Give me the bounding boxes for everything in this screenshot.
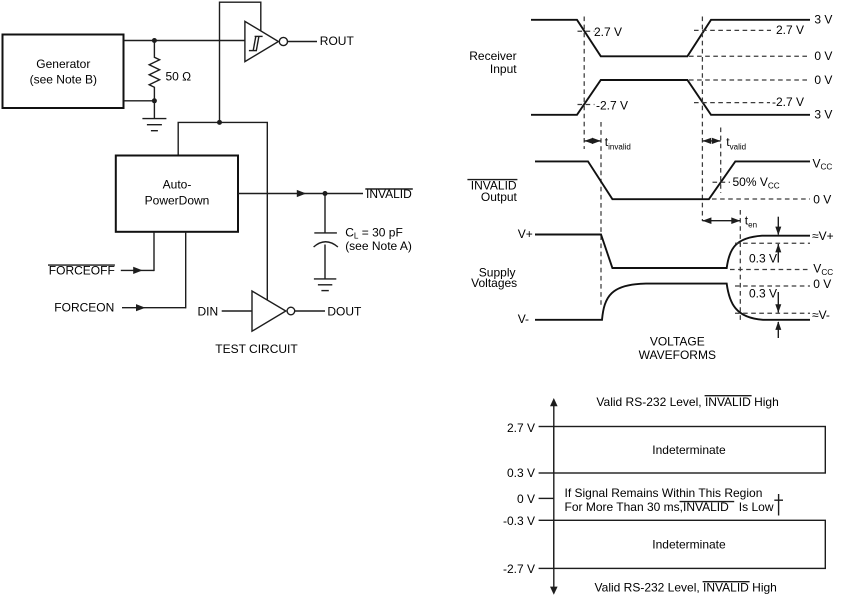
svg-text:tvalid: tvalid [726, 135, 746, 151]
wire generator top output to receiver input [124, 40, 245, 42]
wire auto-powerdown top to DOUT driver enable [178, 122, 267, 299]
svg-text:2.7 V: 2.7 V [594, 25, 622, 39]
dashed 0V level supply [735, 285, 810, 287]
svg-text:V-: V- [518, 312, 529, 326]
wire FORCEON input with arrowhead [122, 307, 186, 309]
svg-text:-2.7 V: -2.7 V [503, 562, 535, 576]
dashed V- plus 0.3V level [735, 312, 810, 314]
svg-text:≈V-: ≈V- [812, 308, 830, 322]
indeterminate region box top [554, 427, 826, 474]
dimension arrow t-invalid [584, 140, 601, 142]
0V dashed level first waveform [689, 55, 810, 57]
svg-text:0.3 V: 0.3 V [749, 287, 777, 301]
resistor 50 ohm [149, 41, 159, 101]
dimension arrow t-valid [702, 140, 720, 142]
50% VCC tick on rising edge [713, 181, 731, 183]
dimension arrows 0.3V lower [777, 292, 779, 313]
svg-text:Voltages: Voltages [471, 276, 517, 290]
wire capacitor to ground [324, 245, 326, 279]
hysteresis symbol inside receiver [249, 36, 263, 50]
svg-text:ROUT: ROUT [320, 34, 355, 48]
wire FORCEOFF input with arrowhead [121, 269, 154, 271]
svg-text:-0.3 V: -0.3 V [503, 514, 535, 528]
generator box [3, 35, 124, 109]
ground below capacitor [314, 278, 336, 280]
svg-text:WAVEFORMS: WAVEFORMS [639, 348, 716, 362]
svg-text:If Signal Remains Within This: If Signal Remains Within This Region [565, 486, 763, 500]
wire enable loop from auto-powerdown net up over receiver [220, 2, 261, 122]
svg-text:tinvalid: tinvalid [605, 135, 631, 151]
node junction enable loop to auto-powerdown [217, 120, 222, 125]
op-amp U1 receiver triangle [245, 21, 279, 61]
-2.7V threshold dashes right falling edge [694, 102, 770, 104]
0V dashed level second waveform [689, 79, 810, 81]
svg-text:0.3 V: 0.3 V [507, 466, 535, 480]
tick -0.3V [539, 519, 554, 521]
svg-text:0 V: 0 V [814, 73, 832, 87]
svg-text:-2.7 V: -2.7 V [772, 95, 804, 109]
svg-text:50 Ω: 50 Ω [166, 69, 192, 83]
dashed vertical t-en end [739, 210, 741, 322]
svg-text:≈V+: ≈V+ [812, 229, 834, 243]
arrowhead on INVALID wire [297, 190, 306, 197]
svg-text:For More Than 30 ms,INVALID: For More Than 30 ms,INVALID Is Low [565, 500, 774, 514]
BOTTOM RIGHT: valid level diagram [503, 395, 825, 595]
svg-text:FORCEON: FORCEON [54, 301, 114, 315]
svg-text:DIN: DIN [198, 305, 219, 319]
svg-text:Valid RS-232 Level, INVALID Hi: Valid RS-232 Level, INVALID High [596, 395, 778, 409]
wire V- supply waveform [535, 284, 810, 320]
driver output inversion bubble [287, 307, 295, 315]
auto-powerdown block U2 [116, 156, 238, 232]
svg-text:V+: V+ [518, 227, 533, 241]
node junction bottom of resistor [152, 98, 157, 103]
2.7V threshold tick left falling edge [578, 30, 595, 32]
dashed V+ minus 0.3V level [735, 242, 810, 244]
dashed 0V level invalid output [712, 198, 810, 200]
svg-text:2.7 V: 2.7 V [507, 421, 535, 435]
wire auto-powerdown output to INVALID node [238, 193, 363, 195]
svg-text:3 V: 3 V [814, 13, 832, 27]
ground below resistor [153, 101, 155, 119]
wire INVALID output waveform [535, 161, 810, 199]
wire generator bottom to resistor bottom [124, 100, 155, 102]
tick 0V [539, 497, 554, 499]
capacitor CL curved bottom plate [314, 242, 338, 247]
wire V+ supply waveform [535, 235, 810, 269]
svg-text:TEST CIRCUIT: TEST CIRCUIT [215, 342, 298, 356]
svg-text:-2.7 V: -2.7 V [596, 99, 628, 113]
receiver output inversion bubble [279, 37, 287, 45]
dimension arrow t-en [702, 220, 740, 222]
voltage axis with arrows [553, 403, 555, 589]
RIGHT: VOLTAGE WAVEFORMS [467, 13, 833, 363]
indeterminate region box bottom [554, 520, 826, 568]
capacitor CL top plate [314, 232, 337, 234]
svg-text:0 V: 0 V [813, 193, 831, 207]
-2.7V threshold tick left rising edge [578, 104, 595, 106]
svg-text:VOLTAGE: VOLTAGE [650, 334, 705, 348]
node junction INVALID [323, 191, 328, 196]
tick 2.7V [539, 426, 554, 428]
svg-text:ten: ten [745, 213, 757, 229]
svg-text:Output: Output [481, 190, 518, 204]
svg-text:VCC: VCC [813, 156, 833, 171]
dashed vertical t-invalid start [583, 17, 585, 150]
dimension arrows 0.3V upper [777, 217, 779, 235]
svg-text:0 V: 0 V [813, 277, 831, 291]
svg-text:Generator: Generator [36, 57, 90, 71]
node junction top of resistor [152, 38, 157, 43]
dagger footnote mark [778, 494, 780, 516]
tick 0.3V [539, 472, 554, 474]
wire DIN to driver input [222, 310, 252, 312]
LEFT: TEST CIRCUIT [3, 2, 413, 356]
svg-text:PowerDown: PowerDown [145, 193, 210, 207]
wire receiver output to ROUT [288, 41, 318, 43]
dashed vertical t-invalid end [600, 122, 602, 308]
2.7V threshold dashes right rising edge [694, 29, 771, 31]
wire driver output to DOUT [295, 310, 325, 312]
dashed vertical t-valid start [701, 17, 703, 222]
svg-text:(see Note A): (see Note A) [345, 239, 412, 253]
svg-text:Input: Input [490, 62, 517, 76]
transistor-level driver inverter triangle [252, 291, 286, 331]
svg-text:Auto-: Auto- [163, 178, 192, 192]
svg-text:0 V: 0 V [814, 49, 832, 63]
svg-text:DOUT: DOUT [327, 304, 362, 318]
wire receiver input negative waveform [531, 80, 810, 115]
tick -2.7V [539, 567, 554, 569]
wire INVALID node down to capacitor [324, 194, 326, 233]
svg-text:VCC: VCC [813, 261, 833, 276]
svg-text:3 V: 3 V [814, 108, 832, 122]
svg-text:Receiver: Receiver [469, 49, 516, 63]
dashed vertical t-valid end [720, 128, 722, 194]
wire receiver input positive waveform [531, 20, 810, 57]
svg-text:Indeterminate: Indeterminate [652, 538, 726, 552]
dashed VCC level [730, 269, 810, 271]
svg-text:50% VCC: 50% VCC [733, 175, 780, 190]
svg-text:0 V: 0 V [517, 492, 535, 506]
svg-text:Indeterminate: Indeterminate [652, 443, 726, 457]
svg-text:0.3 V: 0.3 V [749, 252, 777, 266]
svg-text:(see Note B): (see Note B) [30, 72, 97, 86]
svg-text:2.7 V: 2.7 V [776, 23, 804, 37]
